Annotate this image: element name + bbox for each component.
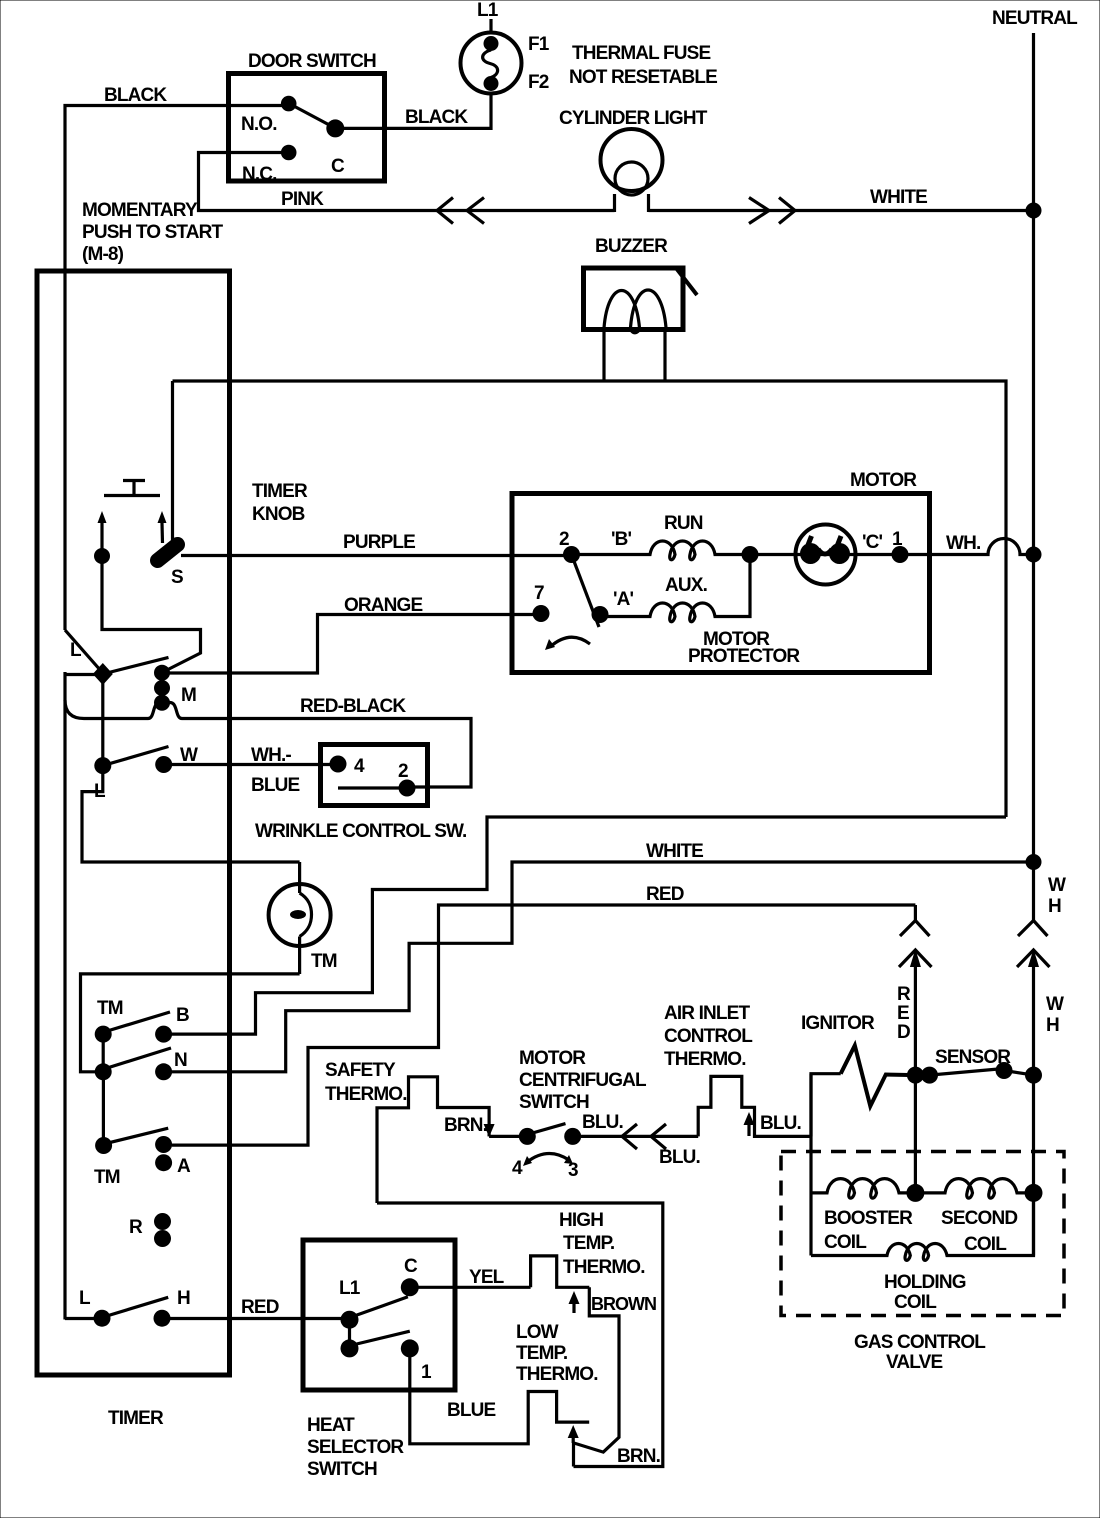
contact B: [155, 1026, 172, 1043]
svg-text:H: H: [177, 1288, 190, 1309]
svg-text:4: 4: [512, 1158, 523, 1179]
svg-text:COIL: COIL: [824, 1232, 867, 1253]
svg-text:GAS CONTROL: GAS CONTROL: [854, 1332, 986, 1353]
junction dot run/aux: [742, 546, 759, 563]
safety thermo bump: [377, 1077, 489, 1203]
svg-text:NOT RESETABLE: NOT RESETABLE: [569, 67, 717, 88]
svg-text:BRN.: BRN.: [444, 1115, 487, 1136]
wire red-black from black wire with notch at M: [65, 700, 471, 787]
switch blade L1 to C: [355, 1297, 408, 1316]
wire black to L contact: [65, 1317, 102, 1320]
svg-text:(M-8): (M-8): [82, 244, 124, 265]
wire wh-blue W to wrinkle control: [164, 763, 338, 766]
contact H: [154, 1310, 171, 1327]
motor protector: [750, 553, 900, 556]
svg-text:R: R: [897, 984, 911, 1005]
contact M (three dots): [154, 665, 170, 681]
contact TM (A row): [95, 1137, 112, 1154]
svg-text:THERMO.: THERMO.: [563, 1257, 645, 1278]
contact R (double dot): [154, 1213, 171, 1230]
svg-text:L1: L1: [477, 0, 499, 21]
junction dot second coil / neutral: [1025, 1184, 1043, 1202]
junction dot booster/second: [906, 1184, 924, 1202]
wire buzzer legs: [602, 329, 605, 381]
svg-text:THERMO.: THERMO.: [664, 1049, 746, 1070]
svg-text:1: 1: [892, 529, 903, 550]
wrinkle control box: [321, 745, 428, 806]
svg-text:C: C: [331, 156, 345, 177]
svg-text:MOTOR: MOTOR: [850, 470, 917, 491]
svg-text:BLUE: BLUE: [447, 1400, 495, 1421]
contact C: [326, 119, 344, 137]
svg-text:CYLINDER LIGHT: CYLINDER LIGHT: [559, 108, 708, 129]
aux winding: [606, 555, 750, 622]
svg-text:COIL: COIL: [964, 1234, 1007, 1255]
wire buzzer line left corner down to S contact: [171, 381, 174, 552]
door switch box: [229, 74, 385, 182]
svg-text:F1: F1: [528, 34, 550, 55]
contact 7: [533, 605, 550, 622]
switch blade 4: [529, 1124, 566, 1134]
wire brown down: [574, 1287, 620, 1466]
svg-text:F2: F2: [528, 72, 549, 93]
svg-text:BOOSTER: BOOSTER: [824, 1208, 913, 1229]
svg-text:BLU.: BLU.: [582, 1112, 623, 1133]
switch blade lower to 1: [355, 1331, 410, 1344]
wire black door switch C to fuse: [335, 93, 491, 128]
svg-text:D: D: [897, 1022, 910, 1043]
svg-text:DOOR SWITCH: DOOR SWITCH: [248, 51, 376, 72]
contact N.C.: [281, 145, 297, 161]
wire purple: [181, 554, 572, 557]
svg-text:BRN.: BRN.: [617, 1446, 660, 1467]
contact 1 heat selector: [401, 1339, 419, 1357]
switch blade to N: [104, 1048, 171, 1069]
svg-text:WH.-: WH.-: [251, 745, 291, 766]
svg-text:SAFETY: SAFETY: [325, 1060, 396, 1081]
svg-text:YEL: YEL: [469, 1267, 505, 1288]
switch blade TM to A: [106, 1128, 169, 1143]
wire pink from N.C.: [199, 153, 615, 211]
gas control valve dashed box: [781, 1152, 1064, 1316]
svg-text:BLU.: BLU.: [659, 1147, 700, 1168]
connector arrow brn: [484, 1124, 495, 1137]
svg-text:WRINKLE CONTROL SW.: WRINKLE CONTROL SW.: [255, 821, 467, 842]
ignitor box left edge: [811, 1074, 841, 1137]
svg-text:L1: L1: [339, 1278, 361, 1299]
wire white left segment: [82, 766, 300, 862]
svg-text:PROTECTOR: PROTECTOR: [688, 646, 800, 667]
svg-text:HIGH: HIGH: [559, 1210, 603, 1231]
svg-text:R: R: [129, 1217, 143, 1238]
svg-text:E: E: [897, 1003, 909, 1024]
centrifugal motion arc: [550, 637, 590, 647]
svg-text:COIL: COIL: [894, 1292, 937, 1313]
wire yel from C: [410, 1286, 531, 1289]
wire TM junction down to TM (A row): [102, 1072, 105, 1146]
switch blade L to W: [103, 747, 169, 766]
svg-text:TIMER: TIMER: [252, 481, 308, 502]
junction TM column: [95, 1063, 112, 1080]
wire black from door switch to left and down: [65, 106, 289, 631]
connector arrow low temp: [568, 1425, 579, 1438]
svg-text:SELECTOR: SELECTOR: [307, 1437, 404, 1458]
node L diamond junction: [93, 663, 113, 685]
run winding: [572, 541, 751, 560]
ignitor zigzag: [841, 1046, 916, 1107]
svg-text:SWITCH: SWITCH: [519, 1092, 589, 1113]
contact L (wrinkle row): [94, 757, 111, 774]
svg-text:BLUE: BLUE: [251, 775, 299, 796]
svg-text:IGNITOR: IGNITOR: [801, 1013, 875, 1034]
wire white cylinder light to neutral: [649, 209, 1034, 212]
svg-text:2: 2: [398, 761, 408, 782]
svg-text:SWITCH: SWITCH: [307, 1459, 377, 1480]
switch blade 2 to A: [572, 556, 599, 627]
svg-text:PURPLE: PURPLE: [343, 532, 415, 553]
contact L1 heat selector: [341, 1311, 359, 1329]
svg-text:SENSOR: SENSOR: [935, 1047, 1011, 1068]
contact TM (B row): [95, 1026, 112, 1043]
wire from S contact dot down to M: [102, 556, 201, 672]
wire neutral vertical: [1032, 33, 1035, 921]
svg-text:L: L: [79, 1288, 91, 1309]
booster coil: [811, 1179, 915, 1199]
svg-text:MOMENTARY: MOMENTARY: [82, 200, 198, 221]
second coil: [915, 1179, 1033, 1199]
svg-text:BLACK: BLACK: [405, 107, 468, 128]
switch blade L to H: [106, 1297, 169, 1316]
wire buzzer line to right and down: [173, 381, 1007, 817]
wire brn to contact 4: [489, 1135, 527, 1138]
timer motor TM circle: [298, 862, 301, 893]
svg-text:W: W: [1046, 994, 1064, 1015]
svg-text:BLACK: BLACK: [104, 85, 167, 106]
contact 4: [330, 756, 347, 773]
lower contact heat selector: [341, 1339, 359, 1357]
svg-text:A: A: [177, 1156, 191, 1177]
svg-text:C: C: [404, 1256, 418, 1277]
svg-text:THERMAL FUSE: THERMAL FUSE: [572, 43, 710, 64]
svg-text:S: S: [171, 567, 183, 588]
wire red: [172, 905, 916, 1145]
svg-text:PINK: PINK: [281, 189, 324, 210]
contact 4 centrifugal: [519, 1128, 536, 1145]
pushbutton arrow right: [160, 523, 164, 543]
svg-text:TM: TM: [94, 1167, 120, 1188]
svg-text:H: H: [1046, 1015, 1059, 1036]
svg-text:VALVE: VALVE: [886, 1352, 942, 1373]
svg-text:WHITE: WHITE: [646, 841, 703, 862]
wire white right to neutral: [1026, 854, 1042, 870]
svg-text:RED: RED: [646, 884, 684, 905]
switch blade N.O. to C: [290, 104, 335, 128]
wire L junction down to L contact: [101, 674, 104, 766]
contact 3 centrifugal: [564, 1128, 581, 1145]
svg-text:M: M: [181, 685, 196, 706]
connector chevrons blu: [622, 1124, 637, 1149]
svg-text:'B': 'B': [611, 529, 632, 550]
connector arrow brown: [569, 1291, 580, 1304]
contact S (start): [94, 548, 110, 564]
wire orange: [163, 615, 541, 674]
air inlet control thermo bump: [698, 1076, 811, 1136]
svg-text:N: N: [174, 1050, 187, 1071]
svg-text:1: 1: [421, 1362, 432, 1383]
svg-text:W: W: [1048, 875, 1066, 896]
contact C heat selector: [401, 1278, 419, 1296]
connector chevrons on pink wire: [437, 198, 453, 224]
svg-text:TEMP.: TEMP.: [516, 1343, 567, 1364]
svg-text:BUZZER: BUZZER: [595, 236, 668, 257]
cylinder light: [601, 129, 663, 191]
svg-text:AUX.: AUX.: [665, 575, 707, 596]
contact N.O.: [281, 96, 297, 112]
svg-text:H: H: [1048, 896, 1061, 917]
contact A motor: [592, 606, 609, 623]
svg-text:'A': 'A': [613, 589, 634, 610]
wire red down to booster junction: [914, 1075, 917, 1193]
connector arrows on white wire: [749, 198, 769, 224]
svg-text:SECOND: SECOND: [941, 1208, 1017, 1229]
svg-text:NEUTRAL: NEUTRAL: [992, 8, 1078, 29]
timer knob T symbol: [104, 494, 160, 497]
svg-text:HEAT: HEAT: [307, 1415, 355, 1436]
svg-text:CENTRIFUGAL: CENTRIFUGAL: [519, 1070, 647, 1091]
svg-text:HOLDING: HOLDING: [884, 1272, 966, 1293]
svg-text:N.O.: N.O.: [241, 114, 277, 135]
centrifugal motion arc: [527, 1153, 569, 1162]
svg-text:TIMER: TIMER: [108, 1408, 164, 1429]
motor box: [512, 494, 930, 673]
high temp thermo bump: [531, 1256, 590, 1287]
svg-text:TM: TM: [311, 951, 337, 972]
svg-text:LOW: LOW: [516, 1322, 559, 1343]
svg-text:WHITE: WHITE: [870, 187, 927, 208]
svg-text:THERMO.: THERMO.: [325, 1084, 407, 1105]
wire red H to heat selector: [162, 1317, 350, 1320]
svg-text:2: 2: [559, 529, 569, 550]
junction dot white/neutral: [1026, 203, 1042, 219]
wire blu from 3 to air inlet thermo: [573, 1135, 699, 1138]
svg-text:RED: RED: [241, 1297, 279, 1318]
heat selector box: [303, 1240, 455, 1390]
contact L (H row): [94, 1310, 111, 1327]
svg-text:RUN: RUN: [664, 513, 703, 534]
contact 2: [399, 780, 416, 797]
switch blade L to M: [103, 657, 169, 674]
buzzer: [584, 268, 684, 330]
svg-text:TM: TM: [97, 998, 123, 1019]
timer box: [37, 271, 230, 1375]
junction dots sensor line: [907, 1067, 924, 1084]
switch blade TM to B: [104, 1012, 170, 1032]
thermo outer box wires: [377, 1203, 663, 1467]
svg-text:AIR INLET: AIR INLET: [664, 1003, 750, 1024]
svg-text:THERMO.: THERMO.: [516, 1364, 598, 1385]
sensor slanted line: [930, 1069, 1005, 1076]
svg-text:TEMP.: TEMP.: [563, 1233, 614, 1254]
svg-text:BROWN: BROWN: [591, 1294, 656, 1314]
pushbutton arrow left: [100, 523, 103, 550]
wire blue from contact 1: [410, 1348, 589, 1443]
contact 2: [563, 546, 580, 563]
svg-text:ORANGE: ORANGE: [344, 595, 422, 616]
contact 1: [892, 546, 909, 563]
connector red: stub chevron and arrow: [914, 905, 917, 921]
svg-text:WH.: WH.: [946, 533, 980, 554]
svg-text:KNOB: KNOB: [252, 504, 305, 525]
wire inside wrinkle box: [338, 786, 407, 789]
thermal fuse L1: [461, 33, 522, 94]
svg-text:'C': 'C': [862, 532, 883, 553]
wire diagonal from black wire into L junction: [65, 630, 103, 673]
svg-text:7: 7: [534, 583, 544, 604]
wire TM circle bottom to left and down: [81, 974, 300, 1072]
svg-text:W: W: [180, 745, 198, 766]
holding coil on bottom edge: [811, 1193, 1034, 1260]
wire from buzzer line down right side to B staircase: [164, 817, 1006, 1034]
svg-text:CONTROL: CONTROL: [664, 1026, 753, 1047]
svg-text:4: 4: [354, 756, 365, 777]
svg-text:B: B: [176, 1005, 189, 1026]
svg-text:BLU.: BLU.: [760, 1113, 801, 1134]
connector wh: chevron and arrow on neutral drop: [1018, 921, 1048, 937]
connector arrow blu right: [747, 1121, 750, 1136]
contact A (double dot): [155, 1136, 172, 1153]
svg-text:RED-BLACK: RED-BLACK: [300, 696, 406, 717]
wire wh. motor out with hump over vertical: [900, 539, 1034, 555]
contact W: [155, 756, 172, 773]
junction dot motor white / neutral: [1026, 547, 1042, 563]
wire black vertical lower: [63, 672, 66, 1320]
svg-text:N.C.: N.C.: [242, 164, 277, 185]
svg-text:MOTOR: MOTOR: [519, 1048, 586, 1069]
svg-text:PUSH TO START: PUSH TO START: [82, 222, 223, 243]
contact N: [155, 1063, 172, 1080]
wire junction left stub: [64, 673, 102, 676]
